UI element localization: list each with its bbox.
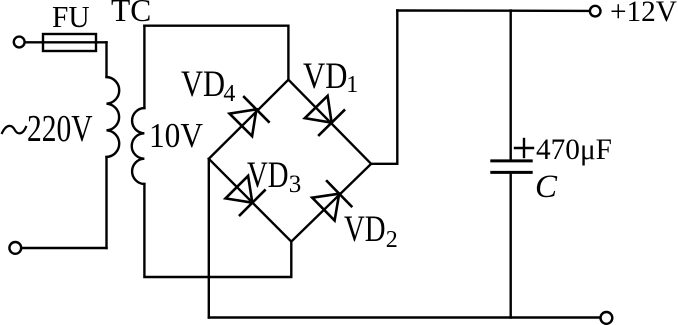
diode VD3 symbol [226, 176, 265, 215]
label 220V [27, 111, 92, 149]
wire fuse to primary, down [105, 42, 107, 77]
wire primary bottom down [105, 157, 107, 248]
label 470uF [536, 136, 612, 165]
wire secondary top [143, 26, 145, 108]
label VD1 [303, 58, 347, 95]
diode VD2 symbol [312, 181, 351, 220]
bottom rail wire [209, 316, 601, 318]
capacitor C plates [492, 159, 531, 162]
terminal top-left [14, 37, 25, 48]
capacitor C top lead wire [510, 11, 512, 160]
transformer TC secondary winding [132, 108, 145, 184]
wire right vertex to plus rail [371, 11, 397, 164]
fuse FU body [43, 34, 96, 51]
wire left vertex down [208, 159, 210, 318]
tilde of ~220V [2, 126, 26, 133]
label FU [52, 2, 90, 33]
terminal bottom-left [9, 242, 21, 254]
wire secondary top to bridge [144, 26, 288, 80]
label C [535, 171, 557, 204]
plus polarity mark of capacitor [515, 147, 533, 149]
capacitor C bottom lead wire [510, 174, 512, 318]
label VD3 [247, 157, 289, 194]
label 10V [149, 118, 203, 153]
terminal bottom-right [601, 312, 613, 324]
label TC [111, 0, 151, 26]
label VD2 [344, 211, 386, 248]
wire top-left to fuse [25, 41, 107, 43]
diode VD4 symbol [230, 97, 269, 136]
label VD4 [181, 66, 225, 103]
top plus rail wire [397, 9, 590, 12]
label +12V [610, 0, 677, 27]
transformer TC primary winding [107, 77, 120, 157]
bridge diamond wires [209, 80, 371, 242]
diode VD1 symbol [305, 96, 344, 135]
wire secondary bottom [144, 184, 291, 277]
wire to bottom-left terminal [22, 247, 107, 249]
terminal +12V [590, 6, 601, 17]
